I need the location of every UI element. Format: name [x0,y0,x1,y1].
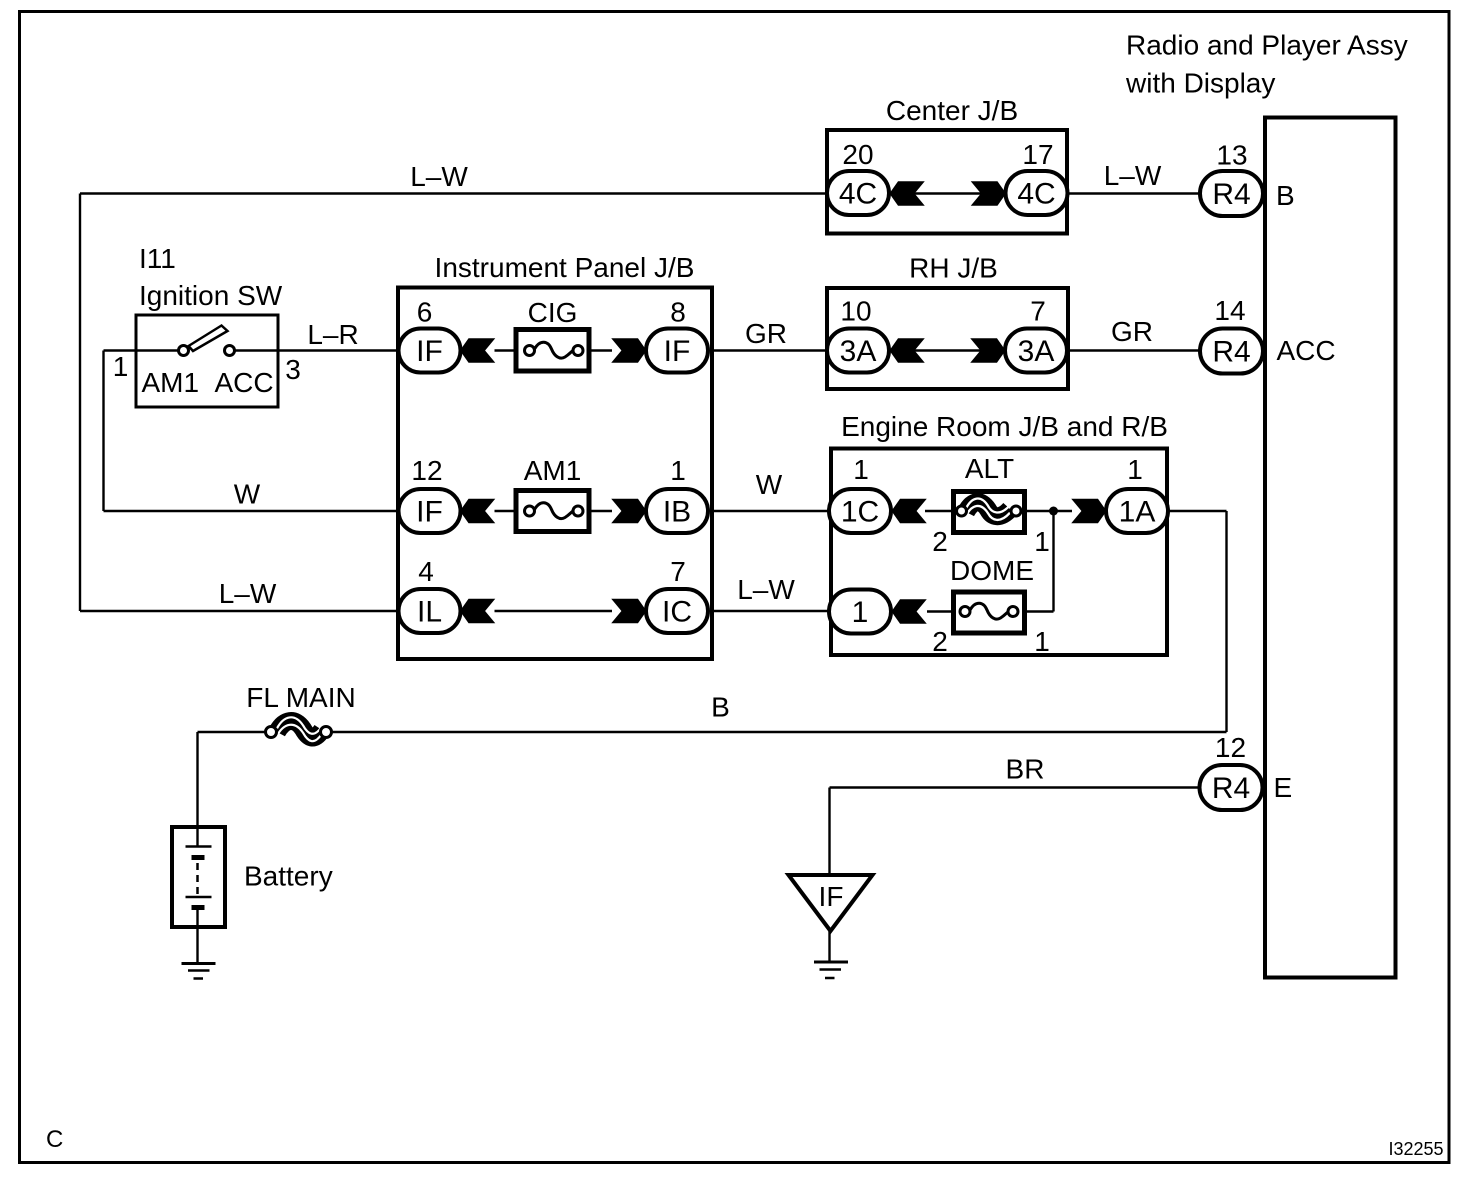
svg-text:1: 1 [1127,454,1143,485]
svg-text:R4: R4 [1212,178,1250,211]
svg-text:2: 2 [932,526,948,557]
svg-text:IC: IC [662,596,692,629]
svg-text:IF: IF [416,496,443,529]
svg-text:L–W: L–W [219,578,277,609]
svg-text:ACC: ACC [215,367,274,398]
svg-text:L–R: L–R [307,319,358,350]
svg-text:IB: IB [663,496,691,529]
svg-text:1C: 1C [841,496,879,529]
svg-text:R4: R4 [1212,772,1250,805]
svg-text:ALT: ALT [965,453,1014,484]
svg-text:BR: BR [1006,754,1045,785]
svg-text:DOME: DOME [950,555,1034,586]
svg-text:B: B [1276,180,1295,211]
svg-text:7: 7 [670,556,686,587]
svg-text:Ignition SW: Ignition SW [139,280,283,311]
svg-text:AM1: AM1 [524,455,582,486]
svg-text:I32255: I32255 [1388,1139,1443,1159]
svg-text:Battery: Battery [244,861,333,892]
svg-text:GR: GR [745,318,787,349]
svg-text:Center J/B: Center J/B [886,95,1018,126]
svg-text:L–W: L–W [737,574,795,605]
svg-text:AM1: AM1 [142,367,200,398]
svg-text:10: 10 [840,296,871,327]
svg-text:IF: IF [416,335,443,368]
svg-text:14: 14 [1214,295,1245,326]
svg-text:13: 13 [1216,140,1247,171]
svg-text:E: E [1274,772,1293,803]
svg-text:2: 2 [932,626,948,657]
svg-text:7: 7 [1030,296,1046,327]
svg-text:IF: IF [664,335,691,368]
svg-text:CIG: CIG [528,297,578,328]
svg-text:W: W [756,469,783,500]
svg-text:8: 8 [670,297,686,328]
svg-text:L–W: L–W [410,161,468,192]
svg-text:FL MAIN: FL MAIN [246,682,355,713]
svg-text:6: 6 [417,297,433,328]
svg-text:4C: 4C [1017,178,1055,211]
svg-text:R4: R4 [1212,336,1250,369]
svg-text:12: 12 [411,455,442,486]
svg-text:Instrument Panel J/B: Instrument Panel J/B [435,252,695,283]
svg-text:1: 1 [853,454,869,485]
svg-text:1: 1 [852,596,869,629]
svg-text:4C: 4C [839,178,877,211]
svg-text:20: 20 [842,139,873,170]
svg-text:3A: 3A [840,335,877,368]
svg-text:17: 17 [1022,139,1053,170]
svg-text:IL: IL [417,596,442,629]
svg-text:RH J/B: RH J/B [909,253,998,284]
svg-text:L–W: L–W [1104,160,1162,191]
svg-text:1: 1 [113,351,129,382]
svg-text:1: 1 [1034,626,1050,657]
svg-text:with Display: with Display [1125,68,1275,99]
svg-text:GR: GR [1111,316,1153,347]
svg-text:ACC: ACC [1277,335,1336,366]
svg-text:1A: 1A [1119,496,1156,529]
svg-text:12: 12 [1215,732,1246,763]
svg-text:4: 4 [418,556,434,587]
svg-text:3: 3 [285,354,301,385]
svg-text:1: 1 [1034,526,1050,557]
svg-text:IF: IF [819,881,844,912]
svg-text:1: 1 [670,455,686,486]
svg-text:3A: 3A [1018,335,1055,368]
svg-text:B: B [711,692,730,723]
svg-text:Radio and Player Assy: Radio and Player Assy [1126,30,1408,61]
svg-text:C: C [46,1126,63,1153]
svg-text:W: W [234,479,261,510]
svg-text:Engine Room J/B and R/B: Engine Room J/B and R/B [841,411,1168,442]
svg-text:I11: I11 [139,243,176,274]
